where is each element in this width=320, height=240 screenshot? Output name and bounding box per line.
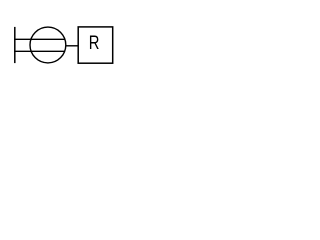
svg-text:R: R [89, 32, 100, 53]
